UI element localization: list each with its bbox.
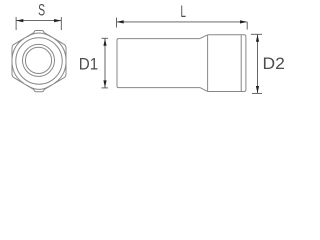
svg-text:L: L <box>180 2 186 20</box>
side view: taper + head <box>200 35 246 92</box>
drive end chamfer line <box>240 35 242 91</box>
svg-text:D2: D2 <box>263 55 285 73</box>
svg-text:D1: D1 <box>79 56 99 74</box>
D2 arrowheads <box>256 35 259 94</box>
dimension S: witness ticks <box>16 17 61 30</box>
head junction line <box>207 35 209 91</box>
dimension D1: vertical line <box>102 38 109 88</box>
front view circle outer <box>23 44 55 76</box>
chamfer arc upper-left corner <box>12 39 24 59</box>
chamfer arc lower-left corner <box>12 63 24 83</box>
dimension S: line <box>16 20 61 22</box>
chamfer arc bottom corner <box>27 85 51 89</box>
dimension L: line <box>117 18 248 30</box>
chamfer arc top corner <box>27 33 51 37</box>
side view: body (shank) <box>117 35 246 92</box>
chamfer arc lower-right corner <box>54 63 66 83</box>
front view circle inner (through hole) <box>25 47 51 73</box>
svg-text:S: S <box>38 1 45 19</box>
D1 arrowheads <box>103 39 106 88</box>
dimension L arrowheads <box>117 20 248 23</box>
D2 witness ticks <box>251 33 262 35</box>
dimension S: arrowheads <box>16 19 61 22</box>
D1 witness ticks <box>102 37 109 39</box>
L witness ticks <box>116 18 118 28</box>
dimension D2: vertical line <box>251 34 262 93</box>
chamfer arc upper-right corner <box>54 39 66 59</box>
socket front view: outer hexagon <box>12 31 66 92</box>
hex recess inscribed circle (S diameter) <box>16 38 62 84</box>
